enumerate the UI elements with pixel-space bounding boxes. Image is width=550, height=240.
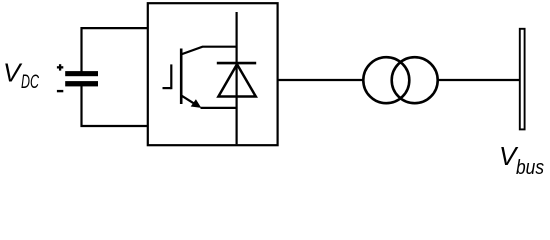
diode D1: triangle [218,64,255,96]
IGBT collector path [181,47,237,55]
IGBT emitter path with arrow [181,95,198,105]
wire box to transformer [277,79,364,81]
wire top loop (cap top to box) [82,28,148,71]
IGBT gate lead [163,87,172,89]
bus bar [520,29,525,130]
label Vbus [499,141,544,179]
svg-text:DC: DC [21,71,40,93]
transformer T1 secondary winding [392,57,438,103]
minus polarity mark [57,90,63,92]
IGBT gate bar [170,64,172,89]
transformer T1 primary winding [363,57,409,103]
plus polarity mark [57,64,63,70]
IGBT Q1: main bar [180,49,183,105]
wire bottom loop (cap bottom to box) [82,86,148,126]
diode D1: cathode bar [217,62,256,65]
svg-text:V: V [3,58,23,88]
svg-text:bus: bus [516,157,544,178]
converter box [148,3,278,145]
wire transformer to bus [438,79,519,81]
label VDC [3,58,40,94]
rail (center leg) [236,12,238,144]
capacitor C (DC-link) [65,71,98,86]
